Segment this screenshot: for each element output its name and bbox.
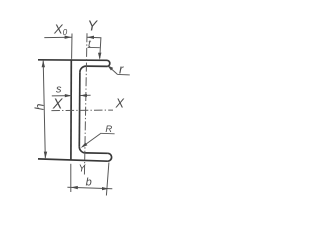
- dimension b: dimension line: [67, 187, 112, 189]
- channel profile: top flange tip rounded cap: [107, 60, 110, 66]
- dimension X0: right arrow line bending down into t arrow: [87, 37, 101, 58]
- dimension b: left arrowhead: [71, 186, 78, 189]
- dimension s: right arrow line: [80, 94, 90, 96]
- dimension h: top arrowhead: [42, 60, 45, 67]
- dimension t: down arrowhead at flange top face: [98, 53, 101, 60]
- leader r: arrowhead: [107, 65, 113, 70]
- leader R: arrowhead: [81, 143, 88, 148]
- channel profile: top inner corner radius R: [80, 66, 86, 73]
- svg-text:R: R: [105, 124, 112, 135]
- dimension X0: extension of web outer face upward: [71, 34, 73, 59]
- dimension s: left arrowhead: [65, 94, 72, 97]
- dimension t: label shelf line: [88, 46, 100, 48]
- svg-text:Y: Y: [87, 19, 98, 35]
- axis Y (vertical dash-dot centroid axis): [84, 33, 87, 176]
- svg-text:X: X: [115, 97, 125, 111]
- leader R: arrow to web-flange inner radius: [83, 134, 101, 147]
- svg-text:r: r: [119, 61, 124, 76]
- dimension h: bottom arrowhead: [44, 152, 47, 159]
- svg-text:s: s: [56, 84, 62, 96]
- channel profile: bottom flange tip rounded cap: [107, 153, 111, 161]
- svg-text:b: b: [86, 177, 92, 189]
- dimension X0: right arrowhead: [87, 36, 94, 39]
- channel profile: bottom flange outer face with h extension: [38, 159, 108, 161]
- channel profile: bottom flange inner face: [86, 152, 108, 154]
- channel profile: top flange outer face with h extension: [38, 59, 107, 62]
- leader r: shelf line: [117, 73, 130, 76]
- svg-text:X: X: [52, 97, 64, 113]
- dimension b: right arrowhead: [102, 187, 109, 190]
- dimension h: vertical dimension line: [43, 61, 45, 159]
- leader r: arrow to flange tip radius: [109, 66, 118, 74]
- dimension s: right arrowhead: [80, 94, 87, 97]
- dimension b: right extension line: [106, 163, 109, 196]
- dimension X0: left arrowhead: [65, 36, 72, 39]
- svg-text:h: h: [33, 103, 47, 110]
- channel profile: bottom inner corner radius R: [79, 147, 85, 153]
- dimension b: left extension line: [70, 164, 72, 192]
- leader R: shelf line: [100, 132, 114, 135]
- channel profile: web inner face: [78, 73, 81, 147]
- channel profile: top flange inner face: [86, 65, 107, 67]
- dimension X0: left arrow line: [44, 36, 71, 38]
- channel profile: web outer face: [70, 59, 72, 160]
- dimension s: left arrow line: [52, 95, 72, 97]
- axis X-X (horizontal dash-dot centroid axis): [51, 109, 113, 112]
